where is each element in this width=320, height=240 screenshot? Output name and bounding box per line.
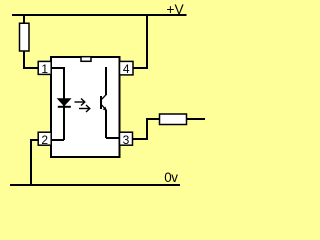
wire R2 to right (output) [187,118,205,120]
optocoupler U1 body [51,57,120,157]
wire vertical down to 0v rail [30,139,32,186]
wire R1 bottom down [23,51,25,68]
pin 4 [120,61,134,76]
pin 3 [120,132,133,147]
light arrow lower [79,105,90,112]
wire to pin 1 [23,67,39,69]
phototransistor Q1 [101,67,119,138]
svg-text:1: 1 [41,62,48,76]
pin 2 [38,132,51,147]
wire pin1 stub inside body [51,67,64,69]
wire vertical up to R2 level [146,118,148,140]
wire rail to R1 top [23,14,25,24]
wire pin2 to left [30,139,39,141]
svg-text:+V: +V [166,2,184,17]
pin 1 [38,61,51,76]
svg-text:4: 4 [123,62,130,76]
wire pin3 to right [133,138,149,140]
resistor R1 [20,23,30,51]
svg-text:3: 3 [123,133,130,147]
wire pin2 stub inside body [51,139,64,141]
notch (pin-1 indicator) [81,57,91,62]
svg-text:2: 2 [41,133,48,147]
wire to R2 [146,118,160,120]
wire +V rail [12,14,187,16]
svg-text:0v: 0v [164,170,178,185]
resistor R2 [160,114,187,125]
light arrow upper [75,99,85,106]
wire pin4 to right [133,67,148,69]
wire vertical up to +V rail [146,15,148,69]
wire LED vertical [63,67,65,140]
0v rail [10,184,180,186]
LED D1 (infra-red LED) [58,99,71,107]
